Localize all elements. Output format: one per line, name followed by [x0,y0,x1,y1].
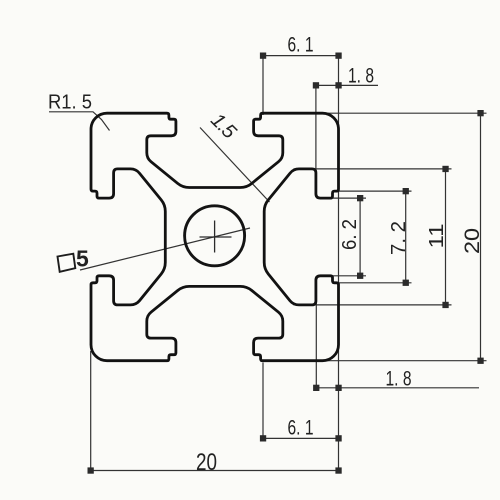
svg-text:7. 2: 7. 2 [388,221,410,255]
profile outline (2020 extrusion cross-section) [91,113,339,361]
svg-text:R1. 5: R1. 5 [48,92,92,114]
svg-text:11: 11 [426,224,448,249]
svg-text:20: 20 [196,449,217,476]
crosshair vertical [214,221,216,253]
dimension 7.2 [405,191,407,283]
svg-text:6. 1: 6. 1 [288,417,314,440]
extension line for 1.8 top dim [315,85,317,197]
square symbol of bore callout [58,254,76,272]
svg-text:20: 20 [461,228,484,254]
dimension 6.1 top [263,55,339,57]
leader R1.5 [49,112,110,131]
extension line for 20 bottom dim [90,351,92,471]
extension lines for 7.2 dim [335,191,412,283]
dimension 1.8 bottom [316,387,479,389]
dimension 6.2 right [359,198,361,276]
svg-text:1. 8: 1. 8 [386,368,412,391]
leader 1.5 wall thickness [200,128,270,203]
leader for center bore callout [80,228,250,270]
dimension 20 bottom [91,470,339,472]
dimension 6.1 bottom [263,437,339,439]
extension lines for 6.2 dim [333,198,366,276]
dimension 20 right [480,113,482,361]
extension lines for 11 dim [294,169,452,305]
dimension 11 [445,169,447,305]
center bore circle [185,206,245,266]
svg-text:6. 2: 6. 2 [339,219,361,250]
shared extension line along profile right edge [338,56,340,471]
extension lines for 20 right dim [320,113,487,361]
svg-text:1. 8: 1. 8 [348,65,374,88]
svg-text:5: 5 [76,246,89,272]
crosshair horizontal [200,236,232,238]
dimension 1.8 top [316,84,378,86]
extension line for 6.1 bottom dim [262,363,264,439]
extension line for 6.1 top dim [262,56,264,115]
svg-text:6. 1: 6. 1 [288,34,314,57]
extension line for 1.8 bottom dim [315,284,317,388]
